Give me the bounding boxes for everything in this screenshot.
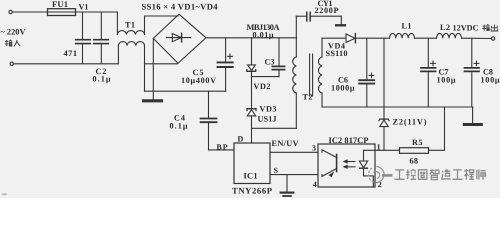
wire: L2 to output terminal — [462, 37, 492, 39]
fuse FU1 — [48, 9, 76, 16]
IC2 817CP optocoupler body — [318, 144, 375, 187]
Y-capacitor CY1 2200P — [295, 16, 297, 38]
svg-text:12VDC: 12VDC — [453, 24, 479, 33]
svg-text:100μ: 100μ — [481, 75, 500, 84]
svg-text:3: 3 — [312, 144, 316, 153]
svg-text:~ 220V: ~ 220V — [1, 28, 26, 37]
inductor L1 — [390, 33, 415, 38]
wire: bridge DC+ (right corner) rail — [206, 37, 296, 39]
wire: bridge DC- (left corner) down across AC wire to ground rail — [152, 38, 154, 99]
wire: R5 to secondary ground rail — [429, 107, 445, 150]
label CJK: shu(input) char 1 — [5, 25, 498, 47]
common-mode choke T1 : top winding — [116, 12, 118, 35]
svg-text:BP: BP — [217, 143, 228, 152]
svg-text:T2: T2 — [303, 93, 313, 102]
plus sign of C6 — [369, 74, 374, 76]
svg-text:V1: V1 — [79, 3, 89, 12]
wire: EN/UV pin IC1 to IC2 pin3 — [270, 151, 318, 153]
wire: S pin IC1 to IC2 pin4 — [270, 174, 318, 176]
ground stub at S pin — [286, 175, 288, 192]
common-mode choke T1 : bottom winding — [117, 46, 119, 64]
watermark char kong — [406, 170, 416, 180]
ground (primary DC-) — [144, 99, 162, 102]
label CJK: chu(output) char 1 of 输出 — [482, 25, 489, 31]
svg-text:0.1μ: 0.1μ — [93, 75, 111, 84]
wire: T1 bottom to bridge lower corner — [145, 63, 178, 65]
earth stub at output — [472, 107, 474, 123]
watermark char shi — [477, 170, 486, 180]
svg-text:10μ400V: 10μ400V — [181, 76, 216, 85]
svg-text:L1: L1 — [402, 22, 412, 31]
svg-text:471: 471 — [64, 49, 78, 58]
watermark char cheng — [464, 169, 474, 179]
watermark char gong1 — [395, 170, 405, 179]
IC1 TNY266P body — [234, 143, 270, 184]
opto phototransistor base bar — [336, 155, 338, 172]
svg-text:VD2: VD2 — [254, 82, 271, 91]
svg-text:0.1μ: 0.1μ — [170, 121, 188, 130]
svg-text:C3: C3 — [265, 58, 275, 67]
svg-text:L2: L2 — [440, 23, 450, 32]
inductor L2 — [437, 33, 462, 38]
svg-text:US1J: US1J — [258, 115, 277, 124]
svg-text:EN/UV: EN/UV — [272, 139, 299, 148]
primary ground rail — [145, 90, 226, 92]
watermark dash — [382, 174, 393, 177]
svg-text:100μ: 100μ — [437, 75, 456, 84]
transformer T2 primary winding — [295, 38, 297, 57]
label CJK: ru(input) char 2 — [14, 40, 21, 46]
wire: drain down to IC1 D pin — [251, 128, 253, 143]
secondary ground rail — [322, 106, 473, 108]
wire: T1 bottom lead continues to DC- rail — [144, 64, 146, 91]
terminal: AC input top — [9, 10, 12, 13]
opto emitter lead to pin4 side with arrow — [322, 169, 337, 177]
secondary output rail — [322, 37, 346, 39]
watermark char zhi — [430, 169, 439, 179]
svg-text:SS16 × 4 VD1~VD4: SS16 × 4 VD1~VD4 — [142, 2, 219, 12]
svg-text:S: S — [274, 166, 279, 175]
transformer T2 core — [309, 54, 311, 96]
watermark text: gong kong wang zhi zao gong cheng shi — [395, 169, 486, 179]
opto light arrows — [345, 161, 356, 163]
capacitor C7 100u — [427, 38, 429, 67]
zener diode Z2 (11V) — [379, 119, 389, 121]
TVS diode VD2 (MBJ130A) — [251, 38, 253, 65]
label CJK: chu(output) char 2 of 输出 — [491, 25, 498, 32]
earth bar at output — [464, 123, 481, 126]
watermark logo swirl — [368, 167, 384, 183]
terminal: AC input bottom — [10, 62, 13, 65]
stray scan mark bottom-left — [2, 193, 7, 195]
svg-text:2200P: 2200P — [315, 6, 339, 15]
varistor V1 (471) — [82, 12, 84, 39]
plus sign of C5 — [228, 55, 233, 57]
svg-text:T1: T1 — [125, 21, 135, 30]
resistor R5 68 ohm — [400, 148, 429, 154]
bridge rectifier VD1-VD4 diamond — [153, 14, 206, 63]
svg-text:1: 1 — [377, 142, 381, 151]
watermark char gong2 — [453, 170, 463, 179]
capacitor C5 10u400V — [225, 38, 227, 62]
wire: bottom AC line from terminal to T1 — [14, 63, 119, 65]
capacitor C6 1000u — [366, 38, 368, 79]
wire: between L1 and L2 — [415, 37, 437, 39]
svg-text:VD3: VD3 — [260, 105, 277, 114]
svg-text:68: 68 — [410, 157, 419, 166]
wire: top AC line from terminal to fuse — [12, 11, 47, 13]
watermark char zao — [441, 169, 450, 179]
wire: C4 to BP pin of IC1 — [209, 149, 235, 151]
svg-text:TNY266P: TNY266P — [232, 186, 272, 196]
svg-text:R5: R5 — [412, 138, 423, 147]
capacitor C4 0.1u — [208, 91, 210, 118]
svg-text:IC1: IC1 — [244, 172, 258, 181]
rectifier diode VD4 SS110 — [346, 34, 355, 43]
watermark char wang — [419, 170, 427, 180]
wire: IC2 pin1 to R5 and zener node — [375, 149, 400, 151]
svg-text:IC2 817CP: IC2 817CP — [329, 136, 369, 145]
svg-text:0.01μ: 0.01μ — [253, 31, 274, 40]
earth bar at CY1 — [336, 24, 345, 26]
transformer T2 secondary winding — [321, 38, 323, 57]
terminal: 12VDC output — [491, 37, 494, 40]
capacitor C2 0.1u — [100, 12, 102, 39]
svg-text:Z2(11V): Z2(11V) — [393, 117, 427, 126]
opto collector lead to pin3 side — [322, 150, 337, 158]
svg-text:SS110: SS110 — [326, 49, 348, 58]
capacitor C8 100u — [471, 38, 473, 67]
opto LED — [364, 150, 376, 160]
capacitor C3 0.01u — [278, 38, 280, 66]
svg-text:FU1: FU1 — [52, 0, 68, 9]
bridge inner diode symbol — [167, 37, 191, 39]
plus sign of C7 — [431, 62, 436, 64]
svg-text:D: D — [238, 135, 244, 144]
plus sign of C8 — [474, 62, 479, 64]
wire: fuse to T1 — [76, 11, 118, 13]
svg-text:4: 4 — [313, 180, 317, 189]
ground bars at S pin — [281, 192, 294, 194]
blocking diode VD3 US1J — [251, 77, 253, 109]
drain node wire to transformer primary — [252, 127, 297, 129]
zener feedback branch wire from output rail — [383, 38, 385, 119]
clamp node wire VD2-C3 — [252, 76, 280, 78]
svg-text:1000μ: 1000μ — [331, 84, 355, 93]
